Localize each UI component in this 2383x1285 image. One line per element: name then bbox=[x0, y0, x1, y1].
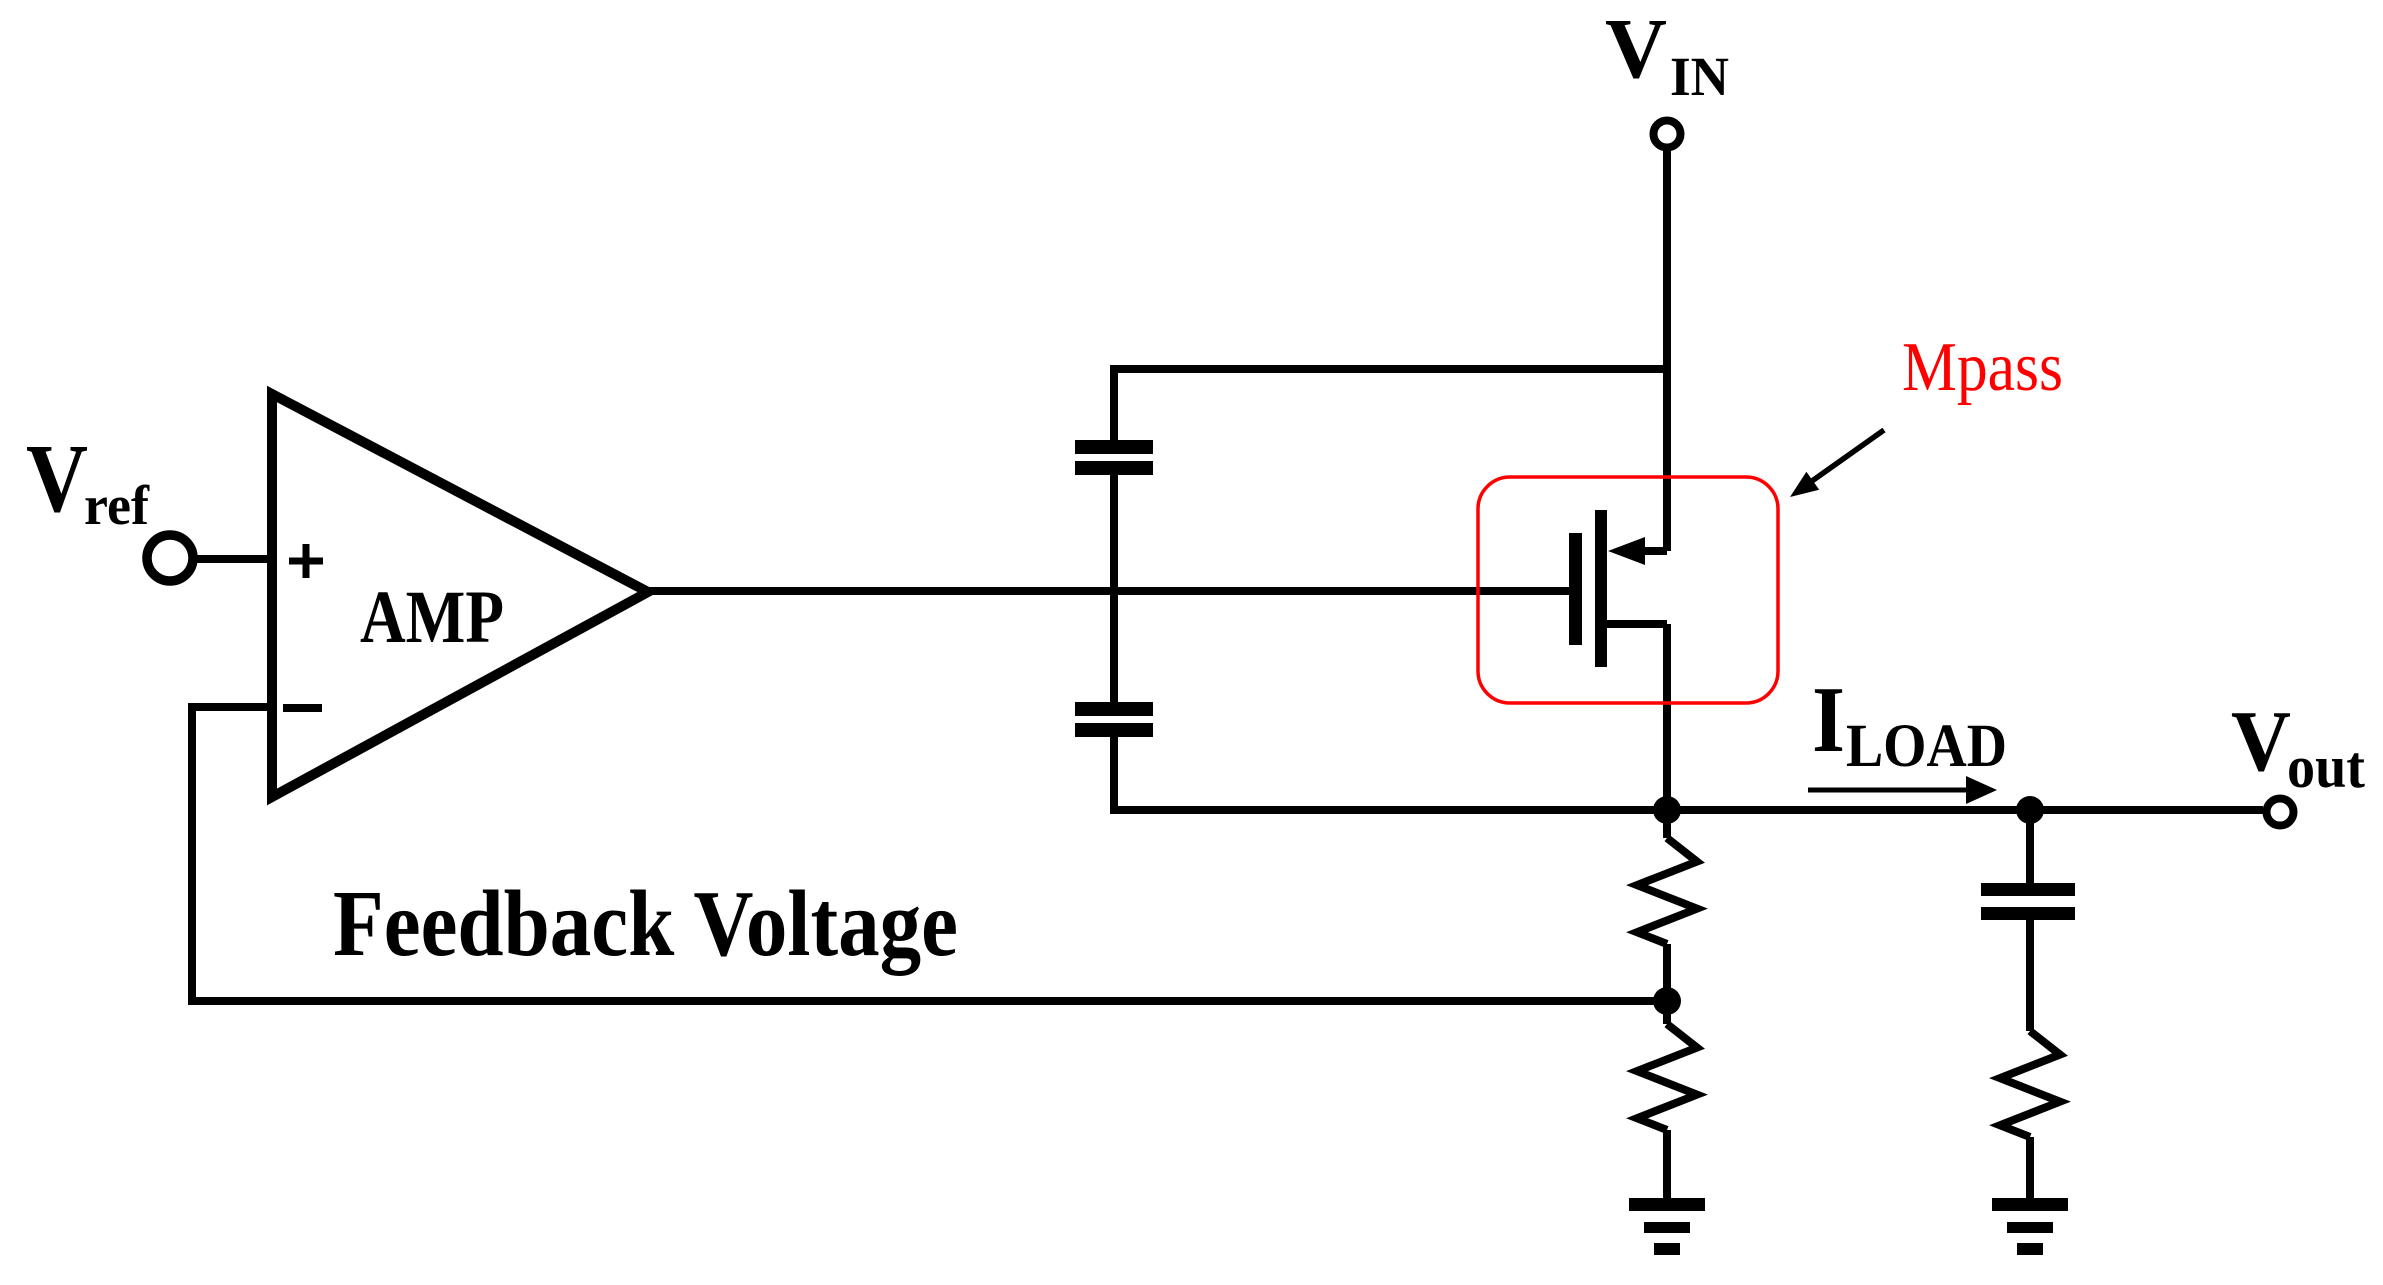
terminal Vout bbox=[2267, 799, 2294, 826]
wire node to Cload bbox=[2026, 810, 2034, 884]
svg-text:V: V bbox=[26, 425, 88, 533]
node feedback tap (junction dot) bbox=[1653, 987, 1681, 1015]
svg-text:AMP: AMP bbox=[360, 576, 504, 659]
label Vout bbox=[2231, 692, 2365, 800]
arrow ILOAD bbox=[1808, 776, 1997, 804]
svg-text:out: out bbox=[2287, 734, 2365, 800]
op-amp U1 AMP bbox=[272, 394, 648, 797]
wire between compensation caps bbox=[1110, 474, 1118, 703]
resistor R3 (load) bbox=[2000, 1031, 2060, 1137]
wire node to R1 bbox=[1663, 810, 1671, 838]
svg-text:LOAD: LOAD bbox=[1846, 713, 2007, 780]
wire drain to output node bbox=[1663, 624, 1671, 810]
wire output rail bbox=[1114, 736, 2263, 810]
node output (junction dot) bbox=[1653, 796, 1681, 824]
pin - (inverting) bbox=[283, 704, 322, 712]
resistor R1 bbox=[1637, 838, 1697, 944]
node load branch (junction dot) bbox=[2016, 796, 2044, 824]
wire Vref to noninverting input bbox=[196, 555, 277, 563]
transistor Q1 Mpass (PMOS) bbox=[1569, 510, 1667, 667]
label Vref bbox=[26, 425, 150, 537]
capacitor Cload bbox=[1981, 883, 2075, 920]
wire R2 to ground bbox=[1663, 1130, 1671, 1199]
label ILOAD bbox=[1812, 668, 2007, 780]
svg-text:I: I bbox=[1812, 668, 1845, 772]
wire feedback (left vertical + bottom horizontal) bbox=[192, 703, 1667, 1001]
svg-text:V: V bbox=[1605, 0, 1667, 96]
wire top rail to Vin line bbox=[1114, 369, 1667, 441]
capacitor C1 (top compensation cap) bbox=[1075, 440, 1153, 475]
svg-text:Mpass: Mpass bbox=[1902, 329, 2063, 406]
terminal Vref bbox=[147, 535, 193, 581]
ground GND1 bbox=[1629, 1198, 1705, 1255]
capacitor C2 (bottom compensation cap) bbox=[1075, 702, 1153, 737]
wire R3 to ground bbox=[2026, 1137, 2034, 1199]
wire R1 to feedback node bbox=[1663, 944, 1671, 1024]
label VIN bbox=[1605, 0, 1729, 107]
svg-text:V: V bbox=[2231, 692, 2291, 789]
highlight box around Mpass bbox=[1478, 477, 1778, 703]
svg-text:IN: IN bbox=[1670, 46, 1729, 107]
pin + (noninverting) bbox=[289, 544, 323, 578]
resistor R2 bbox=[1637, 1024, 1697, 1130]
wire VIN vertical bbox=[1663, 151, 1671, 551]
svg-text:Feedback Voltage: Feedback Voltage bbox=[333, 872, 958, 976]
wire Cload to R3 bbox=[2026, 919, 2034, 1031]
arrow to Mpass bbox=[1790, 430, 1884, 497]
wire amp output to gate bbox=[640, 587, 1576, 595]
wire inverting input bbox=[188, 703, 277, 711]
terminal VIN bbox=[1654, 121, 1681, 148]
svg-text:ref: ref bbox=[84, 475, 150, 537]
ground GND2 bbox=[1992, 1198, 2068, 1255]
